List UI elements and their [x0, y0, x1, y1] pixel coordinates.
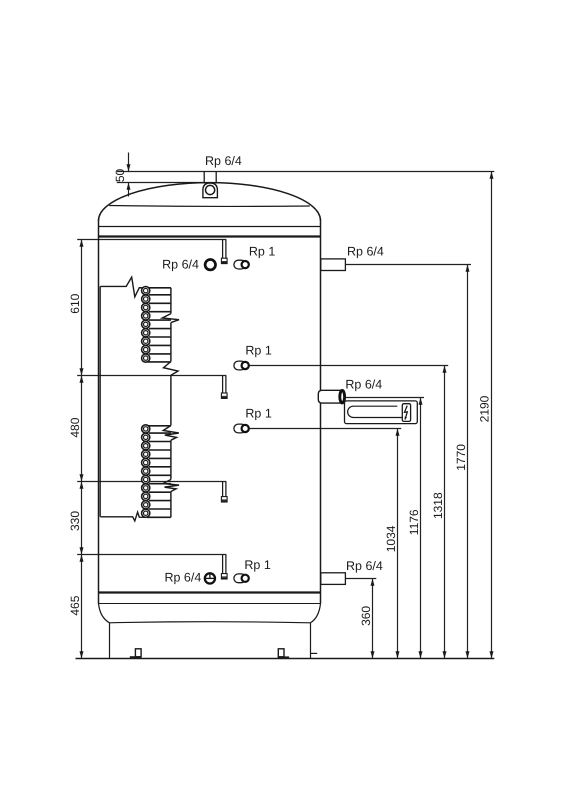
terminal box — [402, 404, 410, 422]
seam line upper thin — [99, 226, 321, 228]
coil supply pipe top with break — [100, 277, 146, 297]
svg-text:Rp 6/4: Rp 6/4 — [162, 257, 199, 271]
svg-text:Rp 6/4: Rp 6/4 — [345, 377, 382, 391]
coil return pipe bottom with break — [100, 512, 146, 521]
skirt left edge — [109, 623, 111, 659]
svg-text:Rp 1: Rp 1 — [245, 406, 271, 420]
break top coil bottom — [164, 362, 179, 376]
foot left — [135, 649, 141, 657]
dimension line 1034 — [397, 429, 399, 659]
top dome silhouette — [99, 183, 321, 221]
boss Rp 6/4 bottom inner (crossed) — [205, 573, 215, 583]
foot tick at right skirt — [311, 652, 318, 654]
svg-text:330: 330 — [68, 511, 82, 531]
pipe 1 from L1 — [222, 240, 224, 259]
element socket — [318, 390, 342, 403]
top coil right edge — [162, 288, 179, 440]
node L2 extension line — [77, 375, 226, 377]
extension line element top to 1176 — [344, 397, 424, 399]
svg-text:1770: 1770 — [454, 444, 468, 471]
dimension line 50 — [128, 153, 130, 172]
bottom right corner curve — [311, 604, 321, 623]
arrow 1318 top/bottom — [443, 366, 447, 373]
nub 1 — [221, 258, 227, 263]
break lower coil top — [163, 426, 179, 441]
top coil rings — [142, 287, 150, 363]
nub 3 — [221, 497, 227, 502]
foot right — [278, 649, 284, 657]
socket end ellipse — [340, 391, 345, 403]
element housing box — [345, 401, 418, 424]
dimension line 2190 — [491, 172, 493, 659]
extension line Rp 1 mid to 1318 — [249, 365, 448, 367]
arrow 610 top (up) — [80, 240, 84, 247]
dimension line 360 — [372, 579, 374, 659]
node L4 extension line — [77, 554, 226, 556]
svg-text:Rp 6/4: Rp 6/4 — [205, 154, 242, 168]
svg-text:Rp 1: Rp 1 — [249, 244, 275, 258]
stub Rp 6/4 bottom right — [321, 573, 346, 585]
top stub pipe — [204, 172, 216, 184]
coil connector line — [170, 375, 172, 425]
node L1 extension line — [77, 239, 226, 241]
lower coil rings — [142, 425, 150, 518]
svg-text:Rp 1: Rp 1 — [244, 558, 270, 572]
svg-text:1318: 1318 — [431, 492, 445, 519]
arrow 1770 top/bottom — [466, 265, 470, 272]
dome apex extension line (50 bottom) — [117, 182, 203, 184]
svg-text:50: 50 — [113, 169, 127, 183]
top coil tubes — [147, 288, 171, 362]
extension line Rp 6/4 top side to 1770 — [345, 264, 471, 266]
tank left edge — [98, 220, 100, 604]
skirt right edge — [310, 623, 312, 659]
extension line Rp 6/4 bottom to 360 — [343, 578, 376, 580]
lightning bolt — [405, 406, 408, 420]
arrow 360 top/bottom — [371, 579, 375, 586]
break top coil middle — [162, 314, 179, 323]
arrows at L3 — [80, 474, 84, 481]
arrow 50 top (down) — [127, 164, 131, 171]
svg-text:480: 480 — [68, 417, 82, 437]
dimension line 1770 — [467, 265, 469, 659]
bottom dome edge arc — [110, 622, 311, 623]
lower coil tubes — [147, 426, 171, 518]
svg-text:Rp 6/4: Rp 6/4 — [347, 245, 384, 259]
extension line Rp 1 lower to 1034 — [249, 428, 401, 430]
svg-text:1176: 1176 — [407, 509, 421, 535]
sleeve Rp 1 top — [234, 260, 246, 269]
sleeve Rp 1 mid — [234, 361, 246, 370]
svg-text:610: 610 — [68, 293, 82, 313]
svg-text:465: 465 — [68, 595, 82, 615]
top extension line (2190 top / stub top) — [117, 171, 495, 173]
top flange — [203, 183, 218, 198]
svg-text:360: 360 — [359, 606, 373, 626]
arrows at L2 — [80, 368, 84, 375]
pipe 3 from L3 — [222, 482, 224, 497]
dimension line 1176 — [420, 398, 422, 659]
pipe 2 from L2 — [222, 376, 224, 394]
seam line upper thick — [99, 235, 321, 237]
sleeve Rp 1 lower — [234, 424, 246, 433]
wall pipe left — [99, 286, 101, 516]
svg-text:Rp 6/4: Rp 6/4 — [164, 571, 201, 585]
break lower coil middle — [163, 480, 179, 492]
arrow 50 bottom (up) — [127, 183, 131, 190]
arrow 1034 top/bottom — [396, 429, 400, 436]
bottom thin line — [99, 603, 321, 605]
node L3 extension line — [77, 481, 226, 483]
nub 2 — [221, 393, 227, 398]
heating rod — [348, 406, 403, 417]
bottom thick line — [99, 591, 321, 593]
top flange circle — [206, 185, 215, 194]
arrow left ground (down) — [80, 651, 84, 658]
bottom left corner curve — [99, 604, 110, 623]
dimension line 1318 — [444, 366, 446, 659]
top head weld seam — [109, 205, 310, 208]
arrow 2190 top/bottom — [490, 172, 494, 179]
arrow 1176 top/bottom — [419, 398, 423, 405]
svg-text:2190: 2190 — [478, 395, 492, 422]
lower coil right edge — [163, 440, 179, 517]
svg-text:1034: 1034 — [384, 525, 398, 552]
dimension line left stack 610/480/330/465 — [81, 240, 83, 659]
pipe 4 from L4 — [222, 555, 224, 574]
svg-text:Rp 1: Rp 1 — [245, 343, 271, 357]
boss Rp 6/4 top inner — [205, 260, 215, 270]
arrows at L4 — [80, 547, 84, 554]
nub 4 — [221, 574, 227, 579]
sleeve Rp 1 bottom — [234, 574, 246, 583]
svg-text:Rp 6/4: Rp 6/4 — [346, 559, 383, 573]
tank right edge — [320, 220, 322, 604]
stub Rp 6/4 top right — [321, 259, 346, 271]
